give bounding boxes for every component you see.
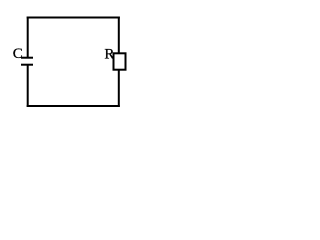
wire top bbox=[27, 17, 120, 19]
capacitor C1 bottom plate bbox=[21, 64, 33, 66]
svg-text:C: C bbox=[13, 46, 23, 62]
wire right lower (resistor down to bottom-right corner) bbox=[118, 70, 120, 107]
wire bottom bbox=[27, 105, 120, 107]
resistor R1 body bbox=[114, 53, 126, 69]
svg-text:R: R bbox=[104, 46, 114, 62]
wire left lower (capacitor down to bottom-left corner) bbox=[27, 65, 29, 107]
capacitor C1 top plate bbox=[21, 57, 33, 59]
wire left upper (top-left corner down to capacitor) bbox=[27, 17, 29, 58]
wire right upper (top-right corner down to resistor) bbox=[118, 17, 120, 54]
